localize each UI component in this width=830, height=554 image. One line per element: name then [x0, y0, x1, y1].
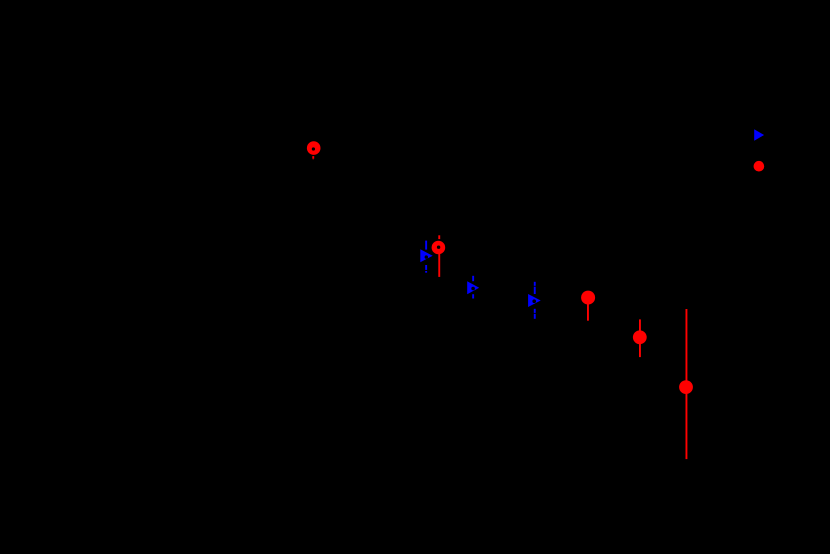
blue open-triangle data point 1 error bar	[425, 241, 427, 273]
legend red filled circle	[754, 161, 765, 172]
blue open-triangle data point 2 marker	[467, 281, 479, 294]
blue open-triangle data point 1 marker	[420, 249, 432, 262]
red filled-circle data point 2 error bar	[639, 319, 641, 357]
red open-circle data point 2 error bar	[438, 235, 440, 277]
red filled-circle data point 3 error bar	[686, 309, 688, 459]
red filled-circle data point 2 marker	[633, 330, 647, 344]
red filled-circle data point 3 marker	[679, 380, 693, 394]
blue open-triangle data point 2 error bar	[472, 276, 474, 299]
blue open-triangle data point 3 marker	[528, 294, 541, 307]
red open-circle data point 1 marker	[307, 141, 321, 155]
red open-circle data point 1 error bar	[312, 156, 314, 159]
red filled-circle data point 1 error bar	[587, 298, 589, 321]
blue open-triangle data point 3 error bar	[534, 282, 536, 319]
red filled-circle data point 1 marker	[581, 291, 595, 305]
legend blue filled triangle	[754, 129, 764, 140]
red open-circle data point 2 marker	[432, 241, 446, 255]
